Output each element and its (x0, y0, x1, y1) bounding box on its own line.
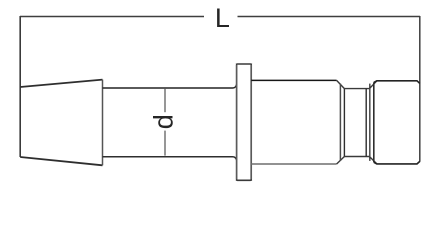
middle cylinder bottom edge (251, 163, 336, 165)
d dimension line lower segment (164, 131, 166, 156)
groove right outer wall (369, 84, 371, 161)
groove floor bottom edge (344, 156, 369, 158)
barb cone bottom edge (20, 157, 102, 165)
extension line right / plug right face (419, 16, 421, 162)
middle cylinder top edge (251, 79, 336, 81)
dimension line L (right segment) (238, 16, 421, 18)
svg-text:d: d (149, 114, 179, 129)
groove right bottom chamfer (369, 157, 377, 164)
plug tip outline (374, 81, 420, 164)
groove right top chamfer (369, 81, 377, 89)
stem bottom edge with fillet into flange (103, 157, 237, 160)
extension line left / barb left face (19, 16, 21, 157)
barb cone top edge (20, 80, 102, 87)
groove right inner wall (365, 89, 367, 157)
groove left top chamfer (337, 80, 345, 88)
groove left outer wall (339, 84, 341, 161)
dimension line L (left segment) (20, 16, 204, 18)
flange bottom edge (236, 179, 252, 181)
groove left inner wall (343, 89, 345, 157)
flange left face (236, 65, 238, 180)
groove left bottom chamfer (337, 157, 345, 165)
d dimension line upper segment (164, 89, 166, 112)
groove floor top edge (344, 88, 369, 90)
plug tip left face (373, 82, 375, 162)
flange right face (250, 65, 252, 180)
barb cone right face (102, 80, 104, 166)
svg-text:L: L (215, 3, 230, 33)
stem top edge with fillet into flange (103, 85, 237, 89)
flange top edge (236, 63, 252, 65)
